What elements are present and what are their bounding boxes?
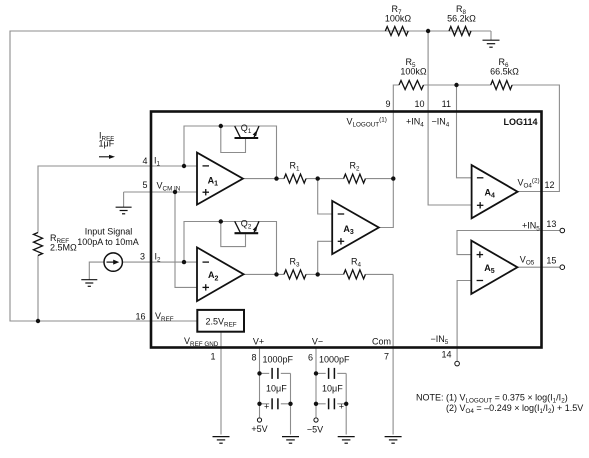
node Vcm	[173, 190, 177, 194]
wire R1/R2 node to A3 inverting input	[318, 179, 333, 214]
svg-text:13: 13	[546, 219, 556, 229]
resistor R8 56.2k	[449, 27, 471, 36]
op-amp A2	[197, 247, 244, 301]
svg-text:5: 5	[142, 180, 147, 190]
wire R3 to R4	[306, 273, 344, 275]
capacitor 10uF V-	[329, 398, 335, 409]
node I1	[182, 164, 186, 168]
wire R1 to R2	[306, 178, 344, 180]
svg-text:10μF: 10μF	[322, 384, 343, 394]
svg-text:7: 7	[384, 352, 389, 362]
terminal -5V	[314, 418, 318, 422]
svg-text:+: +	[339, 401, 344, 411]
wire A5 output V_O5 pin 15	[517, 266, 559, 268]
terminal pin 14	[455, 361, 460, 366]
node Q1 base	[219, 124, 223, 128]
svg-text:Com: Com	[372, 337, 391, 347]
wire Vref loop: top/left/bottom to 2.5Vref box	[10, 31, 491, 321]
svg-text:Input Signal: Input Signal	[85, 227, 133, 237]
node I2	[182, 260, 186, 264]
resistor R2	[344, 174, 366, 183]
node Q2 base	[219, 219, 223, 223]
svg-text:+: +	[264, 401, 269, 411]
wire R7/R8 node pin 10 +IN4 to A4 +	[428, 31, 472, 205]
svg-text:10μF: 10μF	[266, 384, 287, 394]
op-amp A5	[471, 241, 517, 294]
node A1 output	[274, 176, 278, 180]
svg-text:LOG114: LOG114	[504, 117, 538, 127]
resistor RREF 2.5M	[34, 233, 43, 256]
wire 10uF left stub V+	[260, 403, 270, 405]
resistor R5 100k	[399, 81, 424, 90]
wire A2 output to R3	[244, 273, 284, 275]
svg-text:1μF: 1μF	[99, 139, 115, 149]
svg-text:3: 3	[140, 252, 145, 262]
wire Vcm to A2 +	[175, 192, 198, 287]
ground pin 1	[213, 437, 230, 444]
wire R4 right	[365, 273, 393, 275]
svg-text:66.5kΩ: 66.5kΩ	[490, 67, 519, 77]
node Rref/Vref	[36, 319, 40, 323]
svg-text:14: 14	[442, 350, 452, 360]
wire R8 to ground	[471, 30, 491, 32]
ground input source	[81, 280, 97, 287]
LOG114 device boundary box	[151, 112, 542, 348]
wire input source to pin3 I2 A2 inverting	[122, 261, 198, 263]
svg-text:1000pF: 1000pF	[263, 355, 294, 365]
node R5/R6 -IN4	[454, 83, 458, 87]
wire input source to ground	[89, 262, 104, 279]
node V+ cap branch	[288, 402, 292, 406]
transistor Q1	[235, 126, 260, 138]
wire A2 feedback loop via Q2	[184, 222, 277, 275]
ground Vcm in	[116, 207, 132, 214]
svg-text:16: 16	[135, 312, 145, 322]
wire bypass cap branch V+ to ground	[290, 373, 292, 434]
node R2/Vlogout	[391, 176, 395, 180]
svg-text:12: 12	[545, 180, 555, 190]
terminal pin 13	[560, 228, 565, 233]
wire 10uF right stub V+	[281, 403, 291, 405]
op-amp A3	[332, 201, 379, 254]
wire 10uF right stub V-	[337, 403, 346, 405]
wire Q1 base link	[221, 126, 246, 153]
svg-text:−5V: −5V	[307, 425, 323, 435]
svg-text:11: 11	[442, 99, 451, 109]
ground Com pin 7	[385, 437, 402, 444]
wire Com net pin 7 to ground	[392, 274, 394, 434]
svg-text:6: 6	[308, 353, 313, 363]
svg-text:8: 8	[251, 353, 256, 363]
resistor R4	[344, 270, 366, 279]
wire pin 11 -IN4 to A4 -	[457, 85, 472, 178]
wire 1000pF right stub V+	[281, 372, 291, 374]
wire A3 output V_LOGOUT pin9 up to R5	[379, 85, 399, 228]
svg-text:+5V: +5V	[251, 424, 267, 434]
svg-text:9: 9	[385, 99, 390, 109]
svg-text:100pA to 10mA: 100pA to 10mA	[77, 237, 139, 247]
svg-text:100kΩ: 100kΩ	[385, 14, 412, 24]
wire pin1 Vref gnd to ground	[220, 332, 222, 435]
wire A1 feedback loop via Q1	[184, 126, 277, 179]
resistor R1	[284, 174, 306, 183]
resistor R3	[284, 270, 306, 279]
transistor Q2	[235, 221, 260, 233]
node R3/R4	[316, 272, 320, 276]
resistor R6 66.5k	[491, 81, 512, 90]
capacitor 10uF V+	[272, 398, 278, 409]
node V- cap branch	[344, 402, 348, 406]
node V+ 1000pF	[257, 371, 261, 375]
ground R8	[483, 40, 500, 47]
node V- 10uF	[314, 402, 318, 406]
wire R5 to R6 through -IN4 node	[424, 84, 491, 86]
wire Q2 base link	[221, 222, 246, 247]
svg-text:10: 10	[414, 99, 424, 109]
wire R2 to Vlogout node	[365, 178, 393, 180]
wire A3 non-inverting to R3/R4 node	[318, 241, 333, 274]
terminal pin 15	[560, 265, 565, 270]
capacitor 1000pF V-	[329, 368, 335, 379]
resistor R7 100k	[385, 27, 408, 36]
wire pin5 Vcm in to A1 +	[124, 191, 197, 193]
wire pin6 V- down to -5V terminal	[315, 348, 317, 418]
svg-text:56.2kΩ: 56.2kΩ	[447, 14, 476, 24]
terminal +5V	[257, 418, 261, 422]
wire R8 ground stub	[490, 31, 492, 40]
op-amp A1	[197, 153, 243, 205]
svg-text:100kΩ: 100kΩ	[400, 67, 427, 77]
node V+ 10uF	[257, 402, 261, 406]
wire pin8 V+ down to +5V terminal	[259, 348, 261, 418]
node A2 output	[274, 272, 278, 276]
node R7/R8 +IN4	[426, 29, 430, 33]
wire R6 right down to V_O4 pin 12	[512, 85, 559, 192]
node V- 1000pF	[314, 371, 318, 375]
current source input signal	[104, 253, 122, 271]
wire 10uF left stub V-	[316, 403, 326, 405]
capacitor 1000pF V+	[272, 368, 278, 379]
wire 1000pF left stub V-	[316, 372, 326, 374]
wire Rref top to I1 pin 4 into A1 inverting input	[38, 166, 197, 233]
ground V+ caps	[282, 437, 299, 444]
arrow IREF direction	[99, 155, 115, 159]
wire A1 output to R1	[243, 178, 284, 180]
ground V- caps	[338, 437, 355, 444]
svg-text:1: 1	[210, 352, 215, 362]
op-amp A4	[472, 165, 518, 218]
2.5V reference box	[197, 310, 244, 332]
svg-text:1000pF: 1000pF	[319, 355, 350, 365]
wire Vcm ground stub	[123, 192, 125, 207]
wire 1000pF right stub V-	[337, 372, 346, 374]
wire 1000pF left stub V+	[260, 372, 270, 374]
svg-text:2.5MΩ: 2.5MΩ	[50, 243, 77, 253]
node R1/R2	[316, 176, 320, 180]
svg-text:15: 15	[546, 255, 556, 265]
svg-text:V−: V−	[312, 337, 323, 347]
svg-text:V+: V+	[253, 337, 264, 347]
wire Rref bottom to Vref line	[37, 256, 39, 322]
wire pin13 +IN5 to A5 +	[457, 231, 560, 255]
wire A5 - to pin 14 -IN5	[457, 281, 471, 361]
wire bypass cap branch V- to ground	[345, 373, 347, 434]
svg-text:4: 4	[142, 156, 147, 166]
